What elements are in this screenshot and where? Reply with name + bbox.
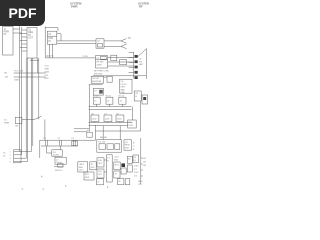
svg-text:E: E: [133, 149, 135, 151]
terminal TB1: [104, 155, 112, 182]
wire spi bus 1: [89, 106, 132, 108]
capacitor C10: [120, 60, 127, 65]
diode D3: [121, 168, 126, 174]
svg-text:X1: X1: [48, 34, 52, 36]
svg-text:C1: C1: [44, 138, 48, 140]
capacitor C3: [71, 138, 77, 146]
connector J9: [125, 179, 130, 185]
wire stub left B: [74, 131, 87, 133]
node R1 ref label: [5, 73, 9, 79]
svg-text:OUT: OUT: [28, 37, 33, 39]
wire J1 pin 1: [13, 28, 20, 30]
svg-text:100n: 100n: [92, 118, 97, 120]
wire mid vertical stub: [36, 58, 38, 73]
wire caps to D1: [47, 146, 52, 154]
wire U1 output 3 down: [30, 58, 32, 152]
node R2 value label: [14, 80, 19, 82]
svg-text:U6 24C: U6 24C: [92, 78, 100, 80]
wire U1 output 2 down: [27, 58, 29, 162]
svg-text:J2: J2: [139, 59, 142, 61]
svg-text:J7: J7: [97, 181, 100, 183]
svg-text:IF: IF: [135, 96, 138, 98]
node relay label: [100, 136, 108, 139]
svg-text:4: 4: [10, 161, 11, 163]
svg-text:330: 330: [91, 167, 95, 169]
svg-text:RELAY: RELAY: [100, 136, 108, 139]
module U4: [96, 56, 108, 68]
antenna ANT1: [138, 49, 147, 80]
wire U5 drop 3: [119, 126, 121, 140]
svg-text:2: 2: [10, 155, 11, 157]
svg-text:RST: RST: [45, 78, 50, 80]
wire U1 bottom stub: [30, 59, 39, 61]
capacitor C1: [44, 138, 48, 146]
crystal Y1 box: [142, 95, 148, 104]
filter FL1 pad 4: [135, 71, 138, 74]
pdf badge: [0, 0, 45, 26]
pdf badge label: [0, 0, 45, 26]
svg-text:A3: A3: [143, 164, 146, 167]
wire i2c bus 1: [89, 122, 133, 124]
svg-text:J6: J6: [134, 157, 137, 159]
node bottom right labels: [138, 181, 143, 186]
svg-text:GND: GND: [45, 68, 50, 70]
filter U2: [96, 39, 104, 48]
wire vertical bus VIN: [19, 25, 21, 152]
node SYSTEM PWR label top left: [70, 2, 82, 9]
svg-text:R7: R7: [91, 164, 95, 166]
wire mid vertical: [38, 58, 40, 120]
wire vertical bus GND: [21, 27, 23, 155]
svg-text:C3: C3: [71, 138, 75, 140]
svg-text:J8: J8: [118, 181, 121, 183]
led LED1: [78, 162, 88, 172]
eeprom U6: [91, 76, 103, 83]
capacitor C7 group: [104, 113, 112, 121]
svg-text:RV1: RV1: [115, 164, 120, 166]
svg-text:C: C: [133, 146, 135, 148]
svg-text:PIC16: PIC16: [121, 84, 128, 86]
svg-text:RF: RF: [139, 61, 142, 63]
svg-text:1k: 1k: [107, 101, 110, 103]
wire X1 leg 2: [52, 44, 54, 58]
svg-text:IO: IO: [134, 160, 137, 162]
svg-text:U4: U4: [96, 58, 99, 60]
diode D4: [58, 164, 63, 168]
capacitor C4: [107, 76, 112, 82]
svg-text:IN: IN: [4, 34, 7, 36]
svg-text:S1: S1: [4, 119, 7, 121]
filter FL1 pad 3: [135, 66, 138, 69]
svg-text:BZ1: BZ1: [85, 174, 90, 176]
resistor R6: [87, 131, 92, 138]
node page mark A: [41, 174, 43, 178]
wire U5 drop 2: [102, 126, 104, 140]
svg-text:4.: 4.: [107, 187, 109, 189]
svg-text:433M: 433M: [96, 64, 101, 66]
wire right bus vertical: [141, 158, 143, 184]
svg-text:Hz: Hz: [48, 41, 52, 43]
svg-text:1.: 1.: [22, 189, 24, 191]
resistor network R1: [14, 72, 46, 74]
svg-text:GND: GND: [14, 80, 19, 82]
diode D2: [121, 163, 125, 167]
wire decoupling rail: [40, 139, 96, 141]
svg-text:K2: K2: [128, 159, 131, 161]
node footer mark 4: [107, 187, 109, 189]
svg-text:PWR: PWR: [71, 5, 78, 9]
node TX label: [128, 37, 131, 40]
connector J7: [97, 179, 104, 185]
svg-text:F1: F1: [115, 173, 118, 175]
wire gnd stub: [89, 84, 103, 86]
svg-text:RED: RED: [79, 167, 84, 169]
svg-text:Q1: Q1: [125, 142, 129, 144]
wire U1 output 4 down: [32, 58, 34, 146]
resistor R4 group: [106, 95, 113, 104]
oscillator X1: [47, 31, 57, 44]
svg-text:T1: T1: [107, 157, 110, 159]
opto U10: [97, 158, 104, 167]
wire rail left drop: [39, 140, 41, 158]
wire RF gnd bus: [93, 75, 147, 77]
svg-text:F877: F877: [121, 87, 127, 89]
resistor R5 group: [119, 95, 126, 104]
svg-text:BUZ: BUZ: [85, 177, 90, 179]
relay K1: [97, 140, 122, 153]
svg-text:100n: 100n: [117, 118, 122, 120]
wire left vertical: [88, 85, 90, 132]
wire X1 leg 1: [49, 44, 51, 58]
svg-text:SCL: SCL: [45, 75, 50, 77]
svg-text:2N2: 2N2: [125, 147, 130, 149]
interface U8: [134, 91, 141, 101]
fuse F1: [114, 171, 120, 178]
regulator U1: [27, 28, 37, 59]
node J2 label: [139, 59, 144, 67]
wire right vertical: [140, 138, 142, 166]
svg-text:SDA: SDA: [45, 71, 50, 74]
wire U8 drop: [140, 101, 142, 131]
node net name column: [45, 65, 50, 80]
svg-text:RF TRX: RF TRX: [96, 62, 104, 64]
wire bus line B: [57, 43, 96, 45]
switch S1: [4, 116, 42, 127]
svg-text:4 G: 4 G: [134, 176, 138, 178]
capacitor C9: [111, 55, 117, 60]
svg-text:EEPROM: EEPROM: [92, 81, 101, 83]
wire U6 link: [103, 76, 107, 78]
varistor RV1: [114, 162, 120, 170]
svg-text:1 NO: 1 NO: [134, 165, 139, 167]
svg-text:U5: U5: [121, 81, 125, 83]
connector J6: [133, 155, 139, 163]
svg-text:3.: 3.: [65, 186, 67, 188]
svg-text:B: B: [107, 161, 109, 163]
svg-text:RF: RF: [139, 5, 143, 9]
opto U11: [97, 169, 104, 178]
driver U9: [128, 120, 137, 128]
svg-text:NOTE 1: NOTE 1: [55, 170, 63, 172]
wire J1 pin 2: [13, 32, 22, 34]
relay K2 contact 2: [127, 165, 132, 172]
wire J5 pin 1: [14, 151, 31, 153]
connector J5: [3, 150, 21, 164]
wire spi bus 2: [89, 109, 132, 111]
svg-text:1: 1: [10, 151, 11, 153]
node footer mark 3: [65, 186, 67, 188]
svg-text:OPT: OPT: [98, 174, 103, 176]
node arrow TX: [121, 39, 127, 44]
svg-text:OPT: OPT: [98, 163, 103, 165]
svg-text:100n: 100n: [105, 118, 110, 120]
wire U1 output 1 down: [25, 58, 27, 158]
node RF bus labels: [94, 71, 110, 76]
capacitor C8 group: [116, 113, 124, 121]
wire rowB stubs: [97, 104, 123, 106]
wire U1 pin ticks: [20, 30, 27, 51]
diode D1: [52, 150, 62, 157]
wire oscillator feed vertical: [44, 27, 46, 58]
connector J8: [118, 179, 124, 185]
svg-text:VCC: VCC: [45, 65, 50, 67]
svg-text:NPN: NPN: [125, 145, 130, 147]
filter FL1 pad 5: [135, 76, 138, 79]
wire U4 out 3: [108, 65, 134, 67]
node R1 value label: [14, 71, 24, 73]
resistor R7: [90, 162, 96, 170]
wire rowC stubs: [95, 122, 120, 123]
svg-text:U2: U2: [97, 41, 101, 43]
svg-text:DRV: DRV: [129, 125, 134, 127]
wire J5 pin 4: [14, 161, 28, 163]
node serial net label: [82, 56, 89, 58]
node RX TX label: [47, 56, 54, 58]
svg-text:K1 12V: K1 12V: [99, 142, 106, 144]
svg-text:1k: 1k: [94, 101, 97, 103]
svg-text:U11: U11: [98, 171, 103, 173]
wire U2 out A: [104, 40, 121, 42]
svg-text:3 NC: 3 NC: [134, 172, 139, 174]
wire U4 out 2: [108, 61, 134, 63]
filter FL1 pad 1: [135, 55, 138, 58]
svg-text:A2: A2: [143, 160, 146, 163]
svg-text:2.: 2.: [43, 189, 45, 191]
svg-text:ON: ON: [15, 126, 19, 128]
svg-text:U7: U7: [94, 90, 97, 92]
resistor network R2: [14, 76, 46, 78]
wire U2 out B: [104, 45, 121, 47]
node SYSTEM RF label top right: [138, 2, 150, 9]
svg-text:12V: 12V: [138, 184, 142, 186]
svg-text:3: 3: [10, 158, 11, 160]
wire oscillator top link: [45, 28, 58, 32]
svg-text:EN GND: EN GND: [94, 73, 103, 75]
node footer mark 1: [22, 189, 24, 191]
connector J1: [3, 27, 14, 56]
svg-text:TX RX: TX RX: [82, 56, 89, 58]
svg-text:RF PWR CTRL: RF PWR CTRL: [94, 71, 110, 73]
buzzer BZ1: [84, 172, 94, 180]
svg-text:U8: U8: [135, 93, 139, 95]
wire bottom link: [54, 166, 64, 168]
wire mid horizontal: [95, 130, 141, 132]
wire serial line: [45, 57, 95, 59]
wire i2c bus 2: [89, 125, 128, 127]
svg-text:U10: U10: [98, 160, 103, 162]
node Q1 pin labels: [133, 142, 135, 150]
svg-text:2 C: 2 C: [134, 169, 138, 171]
svg-text:RA0: RA0: [121, 88, 126, 91]
connector J2 pin column: [129, 52, 134, 79]
wire C2 to L1: [60, 146, 62, 150]
wire S1 to rail: [44, 119, 46, 140]
wire bus line A: [57, 40, 96, 42]
node footer mark 2: [43, 189, 45, 191]
svg-text:GND: GND: [138, 181, 143, 183]
svg-text:ANT: ANT: [139, 63, 144, 66]
node TB1 pin labels: [114, 157, 119, 162]
node footnote: [55, 170, 63, 172]
node right edge labels: [143, 157, 146, 167]
svg-text:1k: 1k: [120, 101, 123, 103]
inductor L1: [55, 157, 66, 164]
capacitor C6 group: [91, 113, 99, 121]
wire X1 stub: [57, 34, 61, 41]
mcu U5: [120, 79, 132, 94]
transistor Q1: [124, 140, 131, 150]
svg-text:GND: GND: [114, 160, 119, 162]
relay K2 contact 1: [127, 156, 132, 163]
filter FL1 pad 2: [135, 60, 138, 63]
svg-text:A: A: [41, 174, 43, 178]
sensor U7: [93, 88, 103, 95]
wire U4 out 1: [108, 57, 134, 59]
svg-text:C2: C2: [58, 138, 62, 140]
resistor R3 group: [93, 95, 100, 104]
wire U5 drop 1: [95, 125, 97, 140]
svg-text:LED1: LED1: [79, 164, 85, 166]
capacitor C2: [58, 138, 62, 146]
svg-text:10k: 10k: [5, 77, 9, 79]
wire J5 pin 3: [14, 157, 26, 159]
svg-text:IO: IO: [3, 155, 6, 157]
svg-text:VCC 3V3: VCC 3V3: [14, 71, 24, 73]
svg-text:+12V: +12V: [114, 157, 119, 159]
node arrow RX: [121, 44, 127, 49]
svg-text:5mm: 5mm: [79, 170, 84, 172]
svg-text:TX: TX: [128, 37, 131, 40]
wire J5 pin 2: [14, 154, 22, 156]
svg-text:R1: R1: [5, 73, 9, 75]
svg-text:RX TX: RX TX: [47, 56, 54, 58]
svg-text:SCHT: SCHT: [53, 155, 60, 157]
svg-text:B: B: [133, 142, 135, 144]
wire right drop: [131, 107, 133, 120]
node J6 labels: [134, 165, 139, 177]
wire mid rail link: [41, 145, 78, 147]
svg-text:A1: A1: [143, 157, 146, 160]
svg-text:J5: J5: [3, 152, 6, 154]
wire stub left A: [74, 128, 89, 130]
svg-text:PWR: PWR: [4, 122, 10, 124]
